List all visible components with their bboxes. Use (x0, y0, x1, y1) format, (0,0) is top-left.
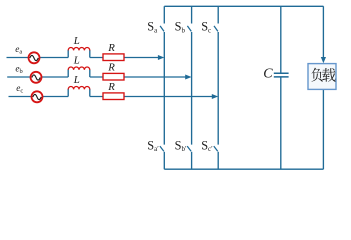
svg-text:Sb′: Sb′ (175, 139, 187, 154)
svg-text:Sb: Sb (175, 20, 186, 35)
svg-text:eb: eb (15, 64, 22, 75)
svg-text:R: R (107, 62, 115, 74)
svg-text:L: L (73, 74, 80, 86)
svg-text:L: L (73, 35, 80, 47)
svg-text:C: C (263, 67, 273, 82)
svg-text:Sa: Sa (147, 20, 158, 35)
svg-text:Sa′: Sa′ (147, 139, 159, 154)
svg-text:R: R (107, 81, 115, 93)
svg-text:L: L (73, 54, 80, 66)
svg-text:R: R (107, 42, 115, 54)
svg-text:ec: ec (16, 84, 23, 95)
svg-text:Sc: Sc (201, 20, 211, 35)
svg-text:ea: ea (15, 45, 22, 56)
svg-text:Sc′: Sc′ (201, 139, 213, 154)
